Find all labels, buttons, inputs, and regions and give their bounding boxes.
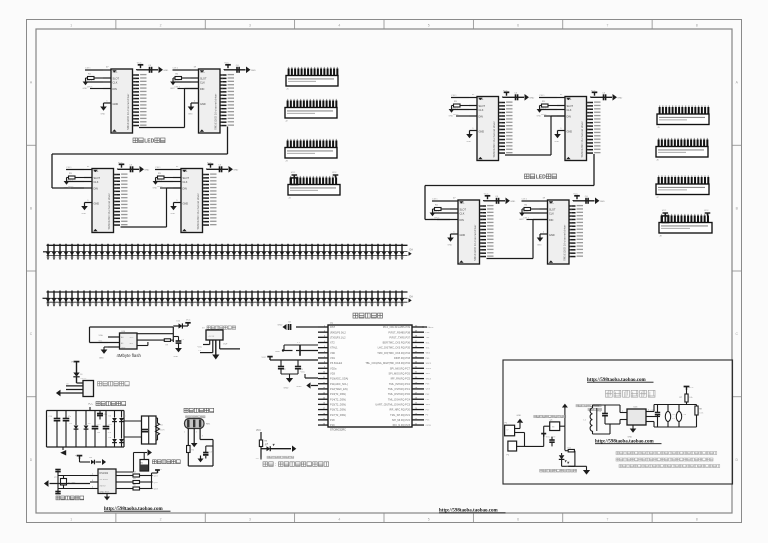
svg-text:CLK: CLK — [567, 109, 572, 112]
label: clock management — [56, 496, 84, 500]
svg-text:DIN: DIN — [479, 116, 484, 119]
svg-text:6: 6 — [517, 517, 519, 521]
svg-text:IRF_RN.RQ.PC5: IRF_RN.RQ.PC5 — [391, 377, 411, 381]
link bottom-center — [439, 508, 506, 513]
wire battery loop to DS1302 — [116, 453, 144, 473]
svg-text:SPI_MOS.RQ.PC6: SPI_MOS.RQ.PC6 — [388, 372, 410, 376]
svg-text:SCL: SCL — [130, 343, 134, 345]
wire LED loop — [562, 426, 575, 466]
wire stub strip 2 — [43, 297, 48, 299]
svg-text:C18 1: C18 1 — [451, 95, 457, 97]
connector J9 programming power — [198, 330, 241, 360]
svg-text:VCC: VCC — [301, 371, 306, 373]
svg-text:P16(T2_DSN): P16(T2_DSN) — [330, 408, 346, 412]
power VCC capacitor cluster above U6 — [503, 90, 535, 101]
wire crystal mid + left arrow — [44, 480, 90, 487]
diode D4 — [109, 411, 117, 439]
svg-text:CLK: CLK — [183, 181, 188, 184]
svg-text:X2 I/O: X2 I/O — [100, 485, 106, 487]
wire U6 to U7 DIN — [505, 116, 565, 155]
svg-text:SM16126D 16-channel driver: SM16126D 16-channel driver — [492, 121, 496, 157]
wire U2 to U3 DIN — [139, 89, 199, 128]
label: emitter polarity — [540, 469, 577, 472]
svg-text:C18 1: C18 1 — [66, 167, 72, 169]
subsheet box wireless power — [503, 360, 733, 484]
svg-text:LHC_DX|TMC_CK3.RQ.P35: LHC_DX|TMC_CK3.RQ.P35 — [378, 346, 411, 350]
ground flash left — [99, 347, 108, 360]
svg-text:BDF|TMC_CK3.RQ.P36: BDF|TMC_CK3.RQ.P36 — [383, 341, 411, 345]
svg-text:C18 1: C18 1 — [539, 95, 545, 97]
ground IR middle — [191, 443, 198, 447]
svg-text:7: 7 — [606, 517, 608, 521]
svg-text:SCL: SCL — [113, 70, 118, 73]
svg-text:SLOT: SLOT — [549, 209, 556, 212]
wire P1 to P2 — [515, 433, 525, 447]
ground arrow up P1 — [515, 415, 524, 429]
wire P2 to VCC node — [525, 426, 544, 446]
ground at U4 GND pin — [81, 200, 92, 215]
svg-text:P14(T2_DSN): P14(T2_DSN) — [330, 397, 346, 401]
svg-text:C18 1: C18 1 — [85, 67, 91, 69]
svg-text:OP20: OP20 — [426, 425, 432, 427]
svg-text:VCC: VCC — [137, 63, 142, 65]
svg-text:GND: GND — [83, 88, 88, 90]
svg-text:47u: 47u — [108, 432, 111, 434]
svg-text:GND: GND — [170, 88, 175, 90]
capacitor C12 — [92, 411, 102, 448]
svg-text:P18: P18 — [330, 418, 335, 422]
IC U7 LED driver — [539, 94, 601, 160]
label: clock backup battery — [153, 460, 181, 464]
svg-text:SM16126D 16-channel driver: SM16126D 16-channel driver — [126, 94, 130, 130]
resistor R at U4 input — [69, 173, 85, 179]
svg-text:VCC: VCC — [332, 172, 337, 174]
ground at U9 GND pin — [537, 231, 548, 246]
crystal Y1 at U1 — [275, 342, 318, 356]
resistor R3 — [259, 440, 268, 458]
svg-text:XT2: XT2 — [330, 341, 335, 345]
svg-text:R10: R10 — [568, 447, 571, 449]
link in box middle — [595, 439, 662, 444]
svg-text:TML_DSH.RQ.PC0: TML_DSH.RQ.PC0 — [388, 392, 411, 396]
svg-text:47u: 47u — [68, 416, 71, 418]
svg-text:DS1302: DS1302 — [100, 472, 109, 475]
resistor R5 — [124, 478, 159, 484]
svg-text:DIN: DIN — [200, 88, 205, 91]
svg-text:VCC: VCC — [291, 172, 296, 174]
wire flash right pins — [137, 334, 173, 346]
power VCC resistor R7 — [680, 387, 694, 405]
wire U7 output to U8 input chain — [425, 154, 594, 220]
svg-text:GND: GND — [517, 415, 522, 417]
connector P2 — [507, 441, 517, 456]
power VCC capacitor cluster above U3 — [224, 63, 256, 74]
svg-text:DIN: DIN — [113, 88, 118, 91]
resistor R9 flash — [137, 339, 173, 347]
svg-text:2: 2 — [160, 24, 162, 28]
svg-text:SM16126D 16-channel driver: SM16126D 16-channel driver — [196, 193, 200, 229]
resistor R at U7 input — [542, 101, 558, 107]
svg-text:OUT: OUT — [223, 343, 228, 345]
svg-text:SM16126D 16-channel driver: SM16126D 16-channel driver — [107, 193, 111, 229]
ground at U8 input resistor — [430, 209, 436, 221]
svg-text:S8: S8 — [552, 426, 554, 428]
svg-text:3: 3 — [249, 24, 251, 28]
wire flash loop — [90, 327, 174, 343]
svg-text:VCC: VCC — [262, 357, 267, 359]
svg-text:CLK: CLK — [460, 212, 465, 215]
svg-text:TMC_DX|TMC_CK3.RQ.P34: TMC_DX|TMC_CK3.RQ.P34 — [377, 351, 410, 355]
resistor R at U2 input — [88, 73, 104, 79]
svg-text:VD1: VD1 — [330, 356, 336, 360]
svg-text:IRF_NRC.RQ.P20: IRF_NRC.RQ.P20 — [389, 408, 410, 412]
svg-text:TML_SH.RQ.P21: TML_SH.RQ.P21 — [390, 413, 410, 417]
connector J1 pin header — [286, 67, 338, 90]
svg-text:LED: LED — [144, 139, 154, 145]
svg-text:GND: GND — [233, 169, 238, 171]
svg-text:D10: D10 — [177, 321, 180, 323]
wire U1 pin 40 VCC — [422, 327, 434, 329]
capacitor C25 — [549, 437, 554, 447]
svg-text:VCC 25ml: VCC 25ml — [546, 437, 556, 439]
svg-text:GND: GND — [555, 141, 560, 143]
svg-text:P11(ADC_SCL): P11(ADC_SCL) — [330, 382, 348, 386]
svg-text:GND: GND — [449, 115, 454, 117]
svg-text:220R: 220R — [160, 430, 165, 432]
power VCC capacitor cluster above U5 — [207, 162, 239, 173]
svg-text:VCC: VCC — [75, 455, 80, 457]
ground at U2 GND pin — [100, 100, 111, 115]
label: digital LED lamp six — [133, 138, 165, 145]
svg-text:CLK: CLK — [549, 212, 554, 215]
IC U8 LED driver — [432, 198, 494, 264]
power VCC capacitor cluster above U2 — [137, 63, 169, 74]
power VCC serial with diode — [71, 361, 86, 383]
capacitor C5 flash — [173, 337, 184, 349]
ground flash right — [174, 348, 182, 358]
ground box bottom — [583, 470, 590, 475]
svg-text:GND: GND — [144, 169, 149, 171]
resistor R at U5 input — [158, 173, 174, 179]
svg-text:SLOT: SLOT — [479, 105, 486, 108]
svg-text:5: 5 — [428, 517, 430, 521]
inductor L1 coil — [584, 405, 597, 434]
diode D10 + power VCC flash — [173, 319, 191, 328]
svg-text:PD: PD — [256, 458, 259, 460]
svg-text:D9: D9 — [80, 374, 82, 376]
svg-text:GND: GND — [113, 103, 119, 106]
label: flash nets — [99, 334, 104, 343]
diode D7 — [119, 437, 126, 447]
wire rectifier bottom rail — [47, 411, 125, 448]
svg-text:DIN 3: DIN 3 — [157, 186, 163, 188]
svg-text:VCC: VCC — [207, 162, 212, 164]
resistor R2 — [187, 446, 195, 467]
ground at U7 input resistor — [537, 106, 543, 118]
IC U11 IR receiver — [185, 419, 212, 429]
svg-text:VCC: VCC — [484, 194, 489, 196]
resistor R at U3 input — [175, 73, 191, 79]
svg-text:GND: GND — [163, 70, 168, 72]
crystal Y2 — [54, 470, 90, 494]
svg-text::: : — [275, 462, 276, 467]
connector J4 pin header — [288, 172, 340, 199]
ground at U9 input resistor — [519, 209, 525, 221]
svg-text:D6: D6 — [109, 437, 111, 439]
ground arrow right battery — [144, 449, 152, 456]
svg-text:GND: GND — [628, 436, 633, 438]
svg-text:VD3: VD3 — [330, 372, 336, 376]
svg-text:SCL: SCL — [200, 70, 205, 73]
svg-text:GND: GND — [171, 213, 176, 215]
svg-text:SM16126D 16-channel driver: SM16126D 16-channel driver — [473, 225, 477, 261]
svg-text:GND: GND — [297, 386, 302, 388]
svg-text:DIN 3: DIN 3 — [175, 87, 181, 89]
capacitor C14 — [103, 411, 113, 448]
capacitor C22 electrolytic — [665, 405, 675, 428]
svg-text:P3.6/ALE2: P3.6/ALE2 — [330, 361, 343, 365]
ground at U6 GND pin — [466, 128, 477, 143]
connector P1 — [505, 423, 515, 436]
svg-text:STC89C52RC: STC89C52RC — [330, 429, 346, 432]
svg-text:C21: C21 — [651, 410, 654, 412]
label: paragraph line2 — [616, 458, 713, 461]
svg-text:P.RST_RS485.P38: P.RST_RS485.P38 — [388, 330, 410, 334]
diode D5 — [119, 411, 126, 439]
svg-text:(RXD)P3.0/L2: (RXD)P3.0/L2 — [330, 330, 346, 334]
ground at U6 input resistor — [449, 106, 455, 118]
diode D2 — [70, 411, 79, 448]
diode D8 — [261, 443, 275, 451]
svg-text:5: 5 — [428, 24, 430, 28]
svg-text:VCC: VCC — [118, 162, 123, 164]
svg-text:DIN: DIN — [567, 116, 572, 119]
svg-text:GND: GND — [448, 245, 453, 247]
ground IR — [198, 456, 204, 463]
svg-text:GND: GND — [549, 234, 555, 237]
svg-text:4: 4 — [338, 517, 340, 521]
wire U8 to U9 DIN — [487, 220, 548, 259]
label: paragraph line1 — [616, 452, 717, 455]
svg-text:2: 2 — [196, 432, 197, 434]
label: wireless power circuit title — [606, 390, 656, 397]
svg-text:GND RST: GND RST — [100, 491, 110, 493]
link in box top — [587, 378, 654, 383]
LED strip DS1 — [46, 244, 414, 260]
label: tiny gray note — [267, 456, 294, 458]
wire IR bottom rail — [188, 465, 213, 467]
transistor Q1 — [544, 419, 565, 430]
resistor R at U6 input — [454, 101, 470, 107]
wire U4 to U5 DIN — [121, 188, 182, 227]
svg-text:CLK: CLK — [113, 81, 118, 84]
svg-text:8: 8 — [696, 517, 698, 521]
svg-text:1: 1 — [70, 24, 72, 28]
IC U4 LED driver — [66, 166, 128, 232]
svg-text:6: 6 — [517, 24, 519, 28]
svg-text:CLK: CLK — [479, 109, 484, 112]
svg-text:GND: GND — [537, 245, 542, 247]
power VCC capacitor cluster above U8 — [484, 194, 516, 205]
connector J7 pin header — [656, 175, 709, 198]
svg-text:SLOT: SLOT — [94, 177, 101, 180]
ground at U8 GND pin — [447, 231, 458, 246]
svg-text:VCC: VCC — [704, 210, 709, 212]
svg-text:DIN 3: DIN 3 — [541, 114, 547, 116]
ground under U13 — [628, 425, 637, 438]
svg-text:R2: R2 — [160, 469, 162, 471]
svg-text:SPI_MI.RQ.P22: SPI_MI.RQ.P22 — [392, 418, 411, 422]
svg-text:GND: GND — [200, 103, 206, 106]
label: serial port connector — [98, 382, 130, 386]
IC U12 DS1302 — [90, 469, 124, 500]
svg-text:3: 3 — [249, 517, 251, 521]
IC U10 flash — [108, 331, 137, 350]
svg-text:VCC: VCC — [573, 194, 578, 196]
label: digital LED lamp group B — [525, 174, 557, 181]
IC U5 LED driver — [155, 166, 217, 232]
svg-text:DA: DA — [410, 249, 414, 252]
svg-text:C23: C23 — [672, 414, 675, 416]
ground at U3 input resistor — [170, 78, 176, 90]
svg-text:GND: GND — [510, 201, 515, 203]
resistor R4 — [124, 472, 159, 478]
svg-text:8: 8 — [696, 24, 698, 28]
svg-text:GND: GND — [567, 131, 573, 134]
svg-text:VCC: VCC — [429, 327, 434, 329]
ground at U2 input resistor — [83, 78, 89, 90]
svg-text:DA: DA — [410, 295, 414, 298]
svg-text:SM16126D 16-channel driver: SM16126D 16-channel driver — [213, 94, 217, 130]
diode LED1 infrared — [559, 453, 572, 468]
svg-text:D4: D4 — [109, 415, 111, 417]
resistor R10 — [565, 447, 575, 452]
power VCC note — [256, 430, 261, 440]
svg-text:DIN: DIN — [460, 219, 465, 222]
svg-text:X1 SCLK: X1 SCLK — [100, 479, 109, 481]
capacitor C21 — [651, 405, 661, 428]
svg-text:VCC: VCC — [130, 337, 135, 339]
svg-text:47u: 47u — [672, 418, 675, 420]
IC U9 LED driver — [522, 198, 584, 264]
label: note polarity warning — [263, 462, 329, 467]
ground at U5 input resistor — [153, 178, 159, 190]
wire U3 output to U4 input chain — [52, 127, 228, 189]
wire note arrow — [270, 446, 296, 452]
wire resistor bus — [152, 469, 162, 489]
ground at U1 pin 9 — [297, 382, 319, 388]
svg-text:VD2a: VD2a — [330, 366, 337, 370]
svg-text:P19: P19 — [330, 423, 335, 427]
link bottom-left — [104, 507, 171, 512]
svg-text:SRC3: SRC3 — [426, 378, 432, 380]
svg-text:+5V IN: +5V IN — [208, 336, 215, 338]
svg-text:4: 4 — [338, 24, 340, 28]
svg-text:VCC: VCC — [662, 210, 667, 212]
svg-text:P12(T2EX_EN): P12(T2EX_EN) — [330, 387, 348, 391]
svg-text:10k: 10k — [689, 397, 692, 399]
svg-text:VCC: VCC — [198, 346, 203, 348]
svg-text:1N4148: 1N4148 — [80, 378, 86, 380]
capacitor C6 at U1 RST with ground — [278, 322, 319, 330]
IC U1 MCU main controller — [318, 323, 432, 432]
power VCC capacitor cluster above U4 — [118, 162, 150, 173]
wire VCC to U1 pin 7 — [301, 371, 319, 378]
resistor R at U9 input — [524, 204, 540, 210]
svg-text:SLOT: SLOT — [183, 177, 190, 180]
power VCC capacitor cluster above U9 — [573, 194, 605, 205]
svg-text:C8: C8 — [66, 383, 68, 385]
svg-text:1: 1 — [622, 410, 623, 412]
svg-text:VCC: VCC — [71, 361, 76, 363]
svg-text:VCC: VCC — [689, 387, 694, 389]
svg-text:DIN 3: DIN 3 — [453, 114, 459, 116]
svg-text:GND: GND — [460, 234, 466, 237]
svg-text:P15(T2_DSN): P15(T2_DSN) — [330, 403, 346, 407]
svg-text:LED: LED — [536, 175, 546, 181]
svg-text:DIN: DIN — [549, 219, 554, 222]
svg-text:DIN: DIN — [183, 188, 188, 191]
svg-text:(TXD)P3.1/L2: (TXD)P3.1/L2 — [330, 335, 346, 339]
capacitor C20 — [598, 405, 608, 424]
transformer T1 — [124, 416, 165, 444]
IC U13 driver — [620, 407, 660, 425]
svg-text:RST: RST — [330, 325, 336, 329]
svg-text:GND: GND — [519, 219, 524, 221]
svg-text:8: 8 — [648, 410, 649, 412]
label: power note in box — [534, 415, 566, 417]
svg-text:SLOT: SLOT — [200, 78, 207, 81]
label: remote receiver — [184, 408, 214, 418]
power VCC diode D1 feed — [75, 455, 106, 465]
svg-text:VCC: VCC — [591, 90, 596, 92]
svg-text:C18 1: C18 1 — [432, 198, 438, 200]
IC U2 LED driver — [85, 67, 147, 133]
battery BT1 — [140, 453, 149, 472]
capacitor C11 — [63, 411, 71, 448]
svg-text:GND: GND — [467, 141, 472, 143]
svg-text:SCL: SCL — [460, 201, 465, 204]
svg-text:GND: GND — [275, 351, 280, 353]
svg-text:SDA: SDA — [99, 334, 104, 337]
label: main controller MCU — [353, 313, 382, 318]
svg-text:100k: 100k — [699, 412, 703, 414]
svg-text:SM16126D 16-channel driver: SM16126D 16-channel driver — [580, 121, 584, 157]
svg-text:TML_DSH.RQ.PC4: TML_DSH.RQ.PC4 — [388, 397, 411, 401]
svg-text:SLOT: SLOT — [460, 209, 467, 212]
ground at U5 GND pin — [170, 200, 181, 215]
label: rectifier filter circuit — [88, 402, 126, 406]
svg-text:GND: GND — [121, 347, 126, 349]
diode D6 — [109, 437, 117, 447]
connector J8 pin header — [659, 210, 712, 237]
svg-text:C5: C5 — [182, 339, 184, 341]
svg-text:SCL: SCL — [549, 201, 554, 204]
svg-text:7: 7 — [606, 24, 608, 28]
capacitor C15 — [203, 446, 214, 459]
svg-text:CLK: CLK — [200, 81, 205, 84]
svg-text:GND: GND — [101, 114, 106, 116]
ground rectifier left arrow — [60, 447, 66, 456]
svg-text:SPI_MIS.RQ.PC7: SPI_MIS.RQ.PC7 — [390, 366, 411, 370]
svg-text:GND: GND — [94, 203, 100, 206]
svg-text:P.RST_TXRS.P37: P.RST_TXRS.P37 — [389, 335, 410, 339]
svg-text:C24: C24 — [683, 414, 686, 416]
svg-text:TML_INH.RQ.PC2: TML_INH.RQ.PC2 — [389, 382, 411, 386]
svg-text:VCC: VCC — [256, 430, 261, 432]
svg-text:DIN: DIN — [94, 188, 99, 191]
svg-text:GND: GND — [188, 114, 193, 116]
